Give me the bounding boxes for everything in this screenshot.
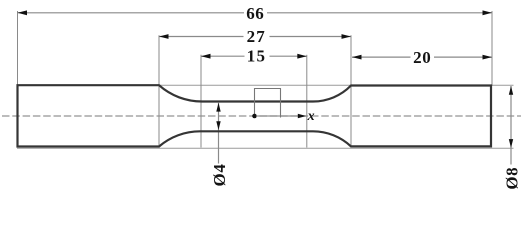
svg-text:27: 27 — [247, 27, 266, 46]
svg-text:Ø8: Ø8 — [502, 167, 521, 190]
svg-text:20: 20 — [413, 48, 431, 67]
svg-text:x: x — [307, 109, 315, 124]
svg-text:Ø4: Ø4 — [210, 164, 229, 187]
svg-text:15: 15 — [247, 47, 266, 66]
svg-text:66: 66 — [246, 4, 264, 23]
